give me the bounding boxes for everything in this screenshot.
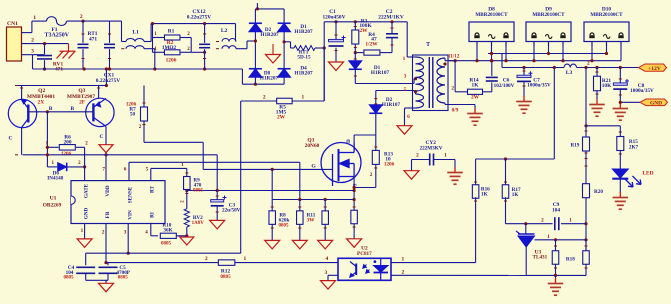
resistor R9 column [186,168,188,177]
L2 bottom-left pin tick [216,48,219,50]
svg-text:IN4148: IN4148 [47,176,64,182]
resistor R6 row [47,146,58,148]
stub to ground [105,280,107,283]
wire CN1 pin2 [22,43,69,45]
svg-text:7: 7 [102,167,105,173]
svg-text:1K: 1K [472,83,480,89]
capacitor CX12 body [199,43,210,45]
rail corner down to C3 row [216,155,218,191]
resistor R10 row [150,224,152,236]
diode D2 HER107 aux body [369,105,382,114]
svg-text:222M3KV: 222M3KV [419,145,442,151]
svg-text:2: 2 [587,61,590,67]
svg-text:0805: 0805 [279,224,290,229]
D9 mid pin wire [548,42,550,54]
junction C3 top [216,189,219,192]
ground arrow under R8 [265,240,280,249]
junction GND flag on C8 column [619,101,622,104]
svg-text:2: 2 [263,95,266,101]
thermistor RT1 body [78,43,89,45]
VDD supply rail [86,252,241,254]
junction feedback takeoff [553,66,556,69]
junction R21 top [595,66,598,69]
transformer primary winding [406,22,408,57]
svg-text:1K: 1K [481,192,488,198]
resistor R12 body [218,260,235,266]
earth ground under R21 [589,99,605,116]
capacitor C4 body [85,253,87,265]
resistor R11b column [324,200,326,211]
svg-text:0805: 0805 [193,189,204,194]
svg-text:2: 2 [416,153,419,159]
MOSFET Q1 20N60 [321,143,361,187]
svg-text:3: 3 [124,229,127,235]
junction base column on driver rail [46,153,49,156]
capacitor C7 column [523,68,525,76]
resistor R28 column [585,240,587,251]
svg-text:H1R207: H1R207 [294,29,313,35]
svg-text:1206: 1206 [166,58,177,64]
svg-text:FB: FB [105,211,111,218]
svg-text:1206: 1206 [384,162,395,168]
wire emitter rail up to mains rail [105,69,107,86]
resistor R9 body [184,177,191,190]
junction source R13 [353,186,356,189]
junction R9 bottom [185,189,188,192]
svg-text:L2: L2 [221,28,228,34]
svg-text:R20: R20 [594,189,603,195]
stub into L1 [122,41,127,43]
transformer pin3 tap [414,77,417,80]
diode D6 row [47,166,57,168]
inductor L3 [564,64,577,67]
svg-text:VIN: VIN [127,210,133,220]
svg-text:H1R107: H1R107 [371,70,390,76]
svg-text:20N60: 20N60 [305,143,320,149]
wire Q3 collector arrow to VDD pin [105,153,107,181]
svg-text:2: 2 [402,269,405,275]
U1 VIN pin [127,224,129,254]
junction TL431 cathode [524,222,527,225]
junction R11 top [298,198,301,201]
Y-capacitor CY2 body [429,154,431,166]
wire C6 top [491,61,493,76]
resistor R14 body [468,89,483,94]
resistor R17 column [505,159,507,186]
wire L1 bottom out [144,48,155,50]
wire R2 to CX12 [191,51,204,53]
transistor Q3 MMBT2907 [86,98,114,126]
stub above bridge top [256,3,258,9]
common-mode choke L2 [235,24,237,42]
junction 11-12 node [454,59,457,62]
IC U1 OB2269 [71,181,165,224]
R7 gate series path [143,86,145,108]
svg-text:1K: 1K [512,192,519,198]
resistor R20 body [583,184,590,198]
bus link vertical [501,54,503,68]
resistor R11b body [322,211,329,225]
wire L2 corner up [246,41,248,49]
sense resistor row [272,199,354,201]
svg-text:2: 2 [451,86,454,92]
junction CX12 mid [203,51,206,54]
varistor RV1 (red symbol) [57,44,76,59]
junction bridge left col bottom [254,83,257,86]
diode D8 HER207 [249,69,262,78]
svg-text:RT: RT [149,185,155,193]
capacitor C6 body [486,76,498,78]
junction GATE node [83,165,86,168]
earth ground TL431 [548,278,564,295]
svg-text:R19: R19 [570,143,579,149]
feedback row [476,158,555,160]
capacitor C2 column [391,22,393,34]
svg-text:1MΩ2: 1MΩ2 [162,45,177,51]
svg-text:PC817: PC817 [357,251,372,257]
capacitor C5 body [99,266,118,268]
resistor R1 row [152,24,154,53]
wire Q2 collector down [21,128,23,155]
secondary feedback bottom rail [526,274,586,276]
D10 mid pin wire [606,42,608,54]
svg-text:3: 3 [325,270,328,276]
varistor RV2 column [184,209,189,227]
LED [612,169,628,178]
svg-text:120u450V: 120u450V [322,14,345,20]
resistor R13 body [372,150,379,164]
net flag +12V [639,64,667,71]
rectifier D8 MBR20100CT package [469,22,514,42]
capacitor C1 body [329,39,344,41]
svg-text:L1: L1 [132,30,139,36]
svg-text:MBR20100CT: MBR20100CT [532,12,565,18]
capacitor C7 body [517,75,531,77]
svg-text:H1R207: H1R207 [260,32,279,38]
wire R13 to Q1 source node [354,187,376,189]
output rail after L3 [577,67,639,69]
ground arrow CY2 primary side [404,171,419,180]
R19 R15 feed row [585,68,587,126]
transformer T1 body box [413,55,449,111]
junction R3 top [354,20,357,23]
junction VDD on driver rail [104,153,107,156]
junction R19 column top [584,66,587,69]
diode D6 1N4148 body [58,163,67,172]
svg-text:1: 1 [33,15,36,21]
snubber R14 C6 on secondary [454,61,456,92]
transformer pin6 lead [405,107,416,109]
svg-text:104: 104 [552,207,560,213]
U2 phototransistor [350,262,370,278]
RT timing wire [150,168,152,180]
resistor R15 body [617,137,624,151]
junction bridge DC right [283,40,286,43]
capacitor on pin2 body [37,55,52,57]
svg-text:2: 2 [102,229,105,235]
resistor R8 column [271,169,273,211]
diode D2 HER207 [249,23,262,32]
ground arrow under C3 [210,220,225,229]
junction RT1 bottom on rail [83,67,86,70]
TL431 ref row [535,239,587,241]
capacitor CX12 leads [204,24,206,43]
primary return arrow pin6 [397,126,412,135]
ground arrow U2 pin3 [321,281,336,290]
pin tick marks [82,33,85,35]
wire LED cathode [619,178,621,193]
junction VIN on VDD rail [127,252,130,255]
output rail +12V [502,67,564,69]
svg-text:+12V: +12V [648,66,661,72]
resistor R11 body [297,211,304,225]
U1 GND pin [84,224,86,239]
driver output rail [23,154,218,156]
wire pin3 down to bottom rail [32,55,34,69]
junction R-divider top [151,22,154,25]
D10 right pin wire [620,42,622,61]
svg-text:0805: 0805 [64,276,75,281]
svg-text:MBR20100CT: MBR20100CT [590,12,623,18]
rectifier D10 MBR20100CT package [584,22,629,42]
svg-text:L3: L3 [566,70,573,76]
snubber-startup vertical [323,22,325,101]
svg-text:CN1: CN1 [7,21,18,27]
capacitor C9 body [554,217,556,230]
svg-text:2K7: 2K7 [629,144,639,150]
diode D4 HER207 [278,69,291,78]
feedback rail to U2 [235,262,338,264]
svg-text:SENSE: SENSE [127,186,133,203]
resistor R8 body [269,211,276,225]
resistor R19 body [583,137,590,151]
svg-text:GND: GND [650,101,662,107]
L1 bottom-left pin tick [121,48,124,50]
svg-text:C: C [8,136,12,142]
junction L1 bottom on rail [153,67,156,70]
rectifier D9 MBR20100CT package [526,22,571,42]
wire Q1 source down [353,177,355,211]
L2 top-left pin tick [216,41,219,43]
HT bus to transformer pin1 [324,21,407,23]
resistor R1 body [164,35,180,40]
wire C4 C5 bottom link [86,279,108,281]
svg-text:2: 2 [541,217,544,223]
wire corner down to L1 [121,21,123,41]
svg-text:RI: RI [149,212,155,218]
svg-text:LED: LED [642,171,653,177]
bridge left column [254,9,256,84]
thermistor RT1 leads [82,21,84,43]
junction R11b top [324,198,327,201]
svg-text:5: 5 [404,87,407,93]
junction R10 RV2 [185,234,188,237]
gate wire to Q1 [203,168,332,170]
junction base drive [46,110,49,113]
svg-text:11/12: 11/12 [448,54,460,60]
junction divider C9 right [584,222,587,225]
svg-text:1: 1 [302,95,305,101]
ground arrow under C4 C5 [99,283,114,292]
Y-capacitor CY2 row [412,159,430,161]
wire L1 top out [144,41,151,43]
SENSE wire [128,162,130,180]
svg-text:H1R207: H1R207 [260,76,279,82]
svg-text:R18: R18 [566,257,575,263]
svg-text:102/100V: 102/100V [494,83,515,89]
junction bridge AC left [254,39,257,42]
wire Q3 emitter up [98,86,100,99]
svg-text:1: 1 [81,228,84,234]
svg-text:0.22u275V: 0.22u275V [187,14,212,20]
TL431 anode down [525,247,527,275]
transistor Q2 MMBT4401 [8,99,36,127]
wire fuse to node 2 [67,20,84,22]
svg-text:H1R207: H1R207 [294,71,313,77]
svg-text:2F: 2F [79,100,86,106]
svg-text:1: 1 [402,257,405,263]
resistor R18 body [552,251,559,265]
junction R6 left [46,146,49,149]
GATE column [84,147,86,180]
capacitor C8 body [613,83,627,85]
svg-text:2W: 2W [277,115,286,121]
junction ref row right [584,238,587,241]
junction bridge top left [256,7,259,10]
feedback takeoff vertical [553,68,555,160]
junction C6 top on bus [490,59,493,62]
junction top node 2 [81,20,84,23]
wire up to upper line [150,24,152,42]
svg-text:T3A250V: T3A250V [44,33,69,39]
earth ground under C7 [516,96,532,113]
wire CX1 top to L1 corner [110,20,122,22]
resistor R21 column [596,68,598,77]
ground arrow under R11 [292,240,307,249]
resistor R5 body [277,98,293,104]
secondary bus middle [448,60,621,62]
svg-text:4: 4 [326,256,329,262]
svg-text:50: 50 [130,112,136,118]
resistor R21 body [594,76,601,91]
svg-text:2W: 2W [471,95,480,101]
wire top line to fuse F1 [32,20,47,22]
D8 mid pin wire [491,42,493,61]
svg-text:222M/1KV: 222M/1KV [378,14,404,20]
bridge right column [283,9,285,84]
capacitor C2 body [386,33,398,35]
tick R19 bottom [585,158,588,160]
row from driver to source [187,190,354,192]
svg-text:1: 1 [444,153,447,159]
svg-text:1A0V: 1A0V [192,221,205,226]
junction secondary tap [443,62,446,65]
junction CX12 top [203,22,206,25]
resistor R7 body [141,107,148,121]
capacitor C8 column [619,68,621,84]
svg-text:6: 6 [407,114,410,120]
U1 FB pin [105,224,107,263]
svg-text:2: 2 [80,14,83,20]
diode D1 HER107 body [349,61,362,70]
svg-text:1: 1 [403,56,406,62]
shunt regulator U3 TL431 [525,224,527,234]
optocoupler U2 PC817 [338,258,391,280]
capacitor CX1 leads [109,21,111,43]
wire CN1 pin1 to riser [22,32,32,34]
tick R20 top [585,165,588,167]
HV minus arrow under C1 [329,62,344,71]
junction source sense row [353,198,356,201]
wire L2 bottom out [236,48,247,50]
transformer secondary top lead [444,58,446,61]
svg-text:471: 471 [89,37,97,43]
svg-text:6: 6 [124,167,127,173]
junction C2 top [390,20,393,23]
svg-text:VDD: VDD [105,185,111,196]
svg-text:2W: 2W [359,28,368,34]
wire D1 to transformer pin3 [355,83,414,85]
svg-text:36K: 36K [163,227,172,233]
connector CN1 [7,27,22,61]
resistor R28 body [583,251,590,265]
junction R17 top [504,157,507,160]
svg-text:8/9: 8/9 [452,108,459,114]
wire R1R2 right column [190,38,192,53]
resistor R2 row [153,51,165,53]
junction DC+ to R5 vertical [323,46,326,49]
svg-text:B: B [49,106,53,112]
secondary bus upper [488,53,607,55]
wire node2 to CX1 top [83,20,110,22]
wire GND flag [620,101,640,103]
svg-text:5D-15: 5D-15 [297,55,311,61]
svg-text:10K: 10K [602,83,612,89]
svg-text:1206: 1206 [61,151,72,157]
wire to R16 [475,159,477,186]
wire Q1 drain to D2 column [354,134,376,136]
sense resistor body [351,210,358,224]
junction D1 top [354,51,357,54]
transformer aux winding [416,94,424,108]
resistor R16 body [472,185,479,199]
resistor R17 body [502,185,509,199]
diode D2 HER107 aux column [375,91,377,105]
resistor R2 body [164,50,180,55]
svg-text:5: 5 [146,167,149,173]
snubber row with R4 [355,52,363,54]
resistor R4 body [364,50,380,55]
svg-text:T: T [426,42,430,48]
wire Q2 emitter up [21,86,23,100]
driver emitter rail [16,85,106,87]
svg-text:3W: 3W [307,218,316,224]
U2 pin1 wire [391,262,476,264]
U2 internal LED [374,266,389,273]
junction source row [353,189,356,192]
wire Q1 drain stub [353,135,355,143]
NTC RT1 5D-15 [284,41,290,43]
bottom mains rail [33,68,243,70]
bridge bottom rail [242,83,284,85]
capacitor on pin2 leads [44,44,46,55]
junction cap bottom on rail [43,67,46,70]
svg-text:B: B [70,106,74,112]
svg-text:1: 1 [569,217,572,223]
transformer T1 core [428,57,430,108]
resistor R5 row [323,48,325,101]
svg-text:0805: 0805 [161,242,172,247]
